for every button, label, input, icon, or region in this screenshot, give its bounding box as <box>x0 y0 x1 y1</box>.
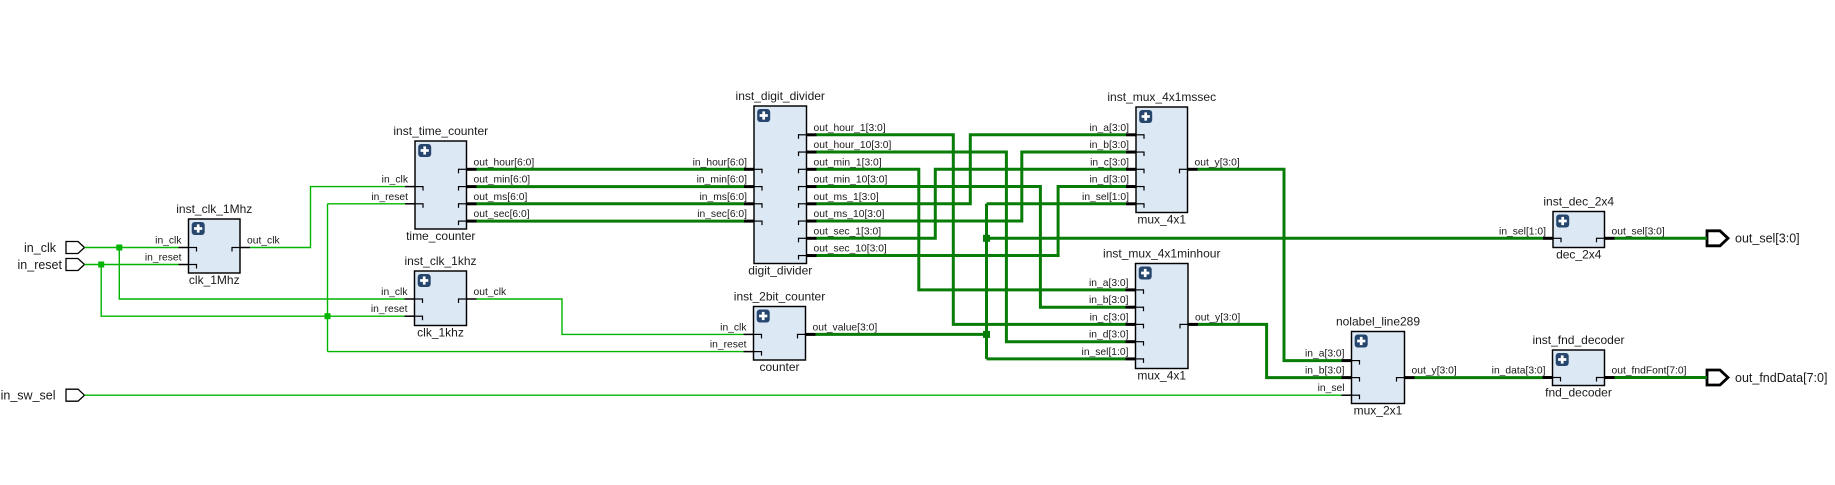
svg-text:in_ms[6:0]: in_ms[6:0] <box>699 192 747 203</box>
pin inst_mux_4x1minhour.out_y[3:0] (right) <box>1180 312 1240 328</box>
module block inst_fnd_decoder (fnd_decoder) <box>1553 350 1605 386</box>
type label dec_2x4 <box>1556 248 1602 262</box>
wire net in_reset: port to clk_1Mhz.in_reset <box>85 264 179 266</box>
type label fnd_decoder <box>1545 386 1612 400</box>
expand icon of inst_mux_4x1mssec <box>1139 110 1152 123</box>
svg-text:out_fndData[7:0]: out_fndData[7:0] <box>1735 371 1827 385</box>
svg-text:inst_mux_4x1mssec: inst_mux_4x1mssec <box>1107 90 1216 104</box>
svg-text:out_fndFont[7:0]: out_fndFont[7:0] <box>1612 366 1687 377</box>
wire net in_clk: port to clk_1Mhz.in_clk <box>85 247 179 249</box>
module block inst_2bit_counter (counter) <box>754 307 806 361</box>
instance label nolabel_line289 <box>1336 315 1420 329</box>
output port out_sel[3:0] <box>1707 231 1800 246</box>
pin inst_time_counter.in_reset (left) <box>371 192 423 208</box>
bus out_value branch to dec_2x4.in_sel <box>987 237 1544 240</box>
svg-text:mux_4x1: mux_4x1 <box>1137 213 1186 227</box>
svg-text:in_reset: in_reset <box>710 340 747 351</box>
pin inst_mux_4x1mssec.in_a[3:0] (left) <box>1089 123 1144 139</box>
pin inst_digit_divider.out_sec_10[3:0] (right) <box>799 244 887 260</box>
pin inst_time_counter.out_hour[6:0] (right) <box>459 157 535 173</box>
pin inst_digit_divider.out_hour_1[3:0] (right) <box>799 123 886 139</box>
pin inst_mux_4x1mssec.in_b[3:0] (left) <box>1089 140 1144 156</box>
type label mux_4x1 <box>1137 369 1186 383</box>
svg-text:out_clk: out_clk <box>247 236 280 247</box>
pin inst_2bit_counter.in_clk (left) <box>720 322 761 338</box>
expand icon of inst_time_counter <box>418 144 431 157</box>
svg-text:in_clk: in_clk <box>381 287 408 298</box>
svg-text:out_min[6:0]: out_min[6:0] <box>474 175 531 186</box>
svg-text:in_c[3:0]: in_c[3:0] <box>1090 157 1129 168</box>
module block inst_mux_4x1minhour (mux_4x1) <box>1136 264 1189 369</box>
module block inst_mux_4x1mssec (mux_4x1) <box>1136 107 1188 213</box>
expand icon of inst_dec_2x4 <box>1556 215 1569 228</box>
svg-text:out_hour[6:0]: out_hour[6:0] <box>474 157 535 168</box>
bus out_sec_10 to mux_4x1mssec.in_d <box>817 187 1127 256</box>
instance label inst_fnd_decoder <box>1532 333 1624 347</box>
svg-text:in_clk: in_clk <box>382 175 409 186</box>
pin inst_clk_1Mhz.in_clk (left) <box>155 236 196 252</box>
junction on out_value at dec branch <box>983 235 990 242</box>
type label clk_1khz <box>417 326 464 340</box>
instance label inst_clk_1Mhz <box>176 202 252 216</box>
svg-text:out_ms[6:0]: out_ms[6:0] <box>474 192 528 203</box>
svg-text:nolabel_line289: nolabel_line289 <box>1336 315 1420 329</box>
svg-text:clk_1Mhz: clk_1Mhz <box>189 273 240 287</box>
wire net in_clk branch: down to clk_1khz.in_clk <box>119 248 404 300</box>
input port in_clk <box>24 241 84 255</box>
expand icon of inst_clk_1Mhz <box>192 222 205 235</box>
type label counter <box>759 360 799 374</box>
svg-text:out_min_10[3:0]: out_min_10[3:0] <box>814 175 888 186</box>
pin inst_mux_4x1minhour.in_d[3:0] (left) <box>1089 330 1144 346</box>
svg-text:inst_time_counter: inst_time_counter <box>393 124 488 138</box>
svg-text:inst_dec_2x4: inst_dec_2x4 <box>1543 195 1614 209</box>
svg-text:out_sec_10[3:0]: out_sec_10[3:0] <box>814 244 887 255</box>
svg-text:inst_fnd_decoder: inst_fnd_decoder <box>1532 333 1624 347</box>
bus dec_2x4.out_sel to output port <box>1615 237 1708 240</box>
module block inst_time_counter (time_counter) <box>415 141 467 229</box>
wire net clk_1Mhz.out_clk to time_counter.in_clk <box>250 187 405 248</box>
pin inst_mux_4x1mssec.out_y[3:0] (right) <box>1180 157 1240 173</box>
instance label inst_dec_2x4 <box>1543 195 1614 209</box>
expand icon of inst_2bit_counter <box>757 310 770 323</box>
svg-text:in_b[3:0]: in_b[3:0] <box>1305 366 1345 377</box>
svg-text:inst_2bit_counter: inst_2bit_counter <box>734 290 825 304</box>
svg-text:in_sel[1:0]: in_sel[1:0] <box>1499 226 1546 237</box>
bus mux_2x1.out_y to fnd_decoder.in_data <box>1415 376 1543 379</box>
pin nolabel_line289.in_b[3:0] (left) <box>1305 366 1360 382</box>
input port in_sw_sel <box>1 389 85 403</box>
expand icon of nolabel_line289 <box>1355 335 1368 348</box>
svg-text:in_a[3:0]: in_a[3:0] <box>1089 278 1129 289</box>
type label mux_2x1 <box>1354 404 1403 418</box>
bus fnd_decoder.out_fndFont to output port <box>1615 376 1708 379</box>
pin inst_mux_4x1mssec.in_sel[1:0] (left) <box>1082 192 1144 208</box>
pin inst_digit_divider.out_hour_10[3:0] (right) <box>799 140 892 156</box>
pin inst_digit_divider.in_ms[6:0] (left) <box>699 192 762 208</box>
bus out_hour_1 to mux_4x1minhour.in_c <box>817 135 1126 325</box>
svg-text:inst_clk_1khz: inst_clk_1khz <box>404 254 476 268</box>
module block nolabel_line289 (mux_2x1) <box>1352 332 1405 404</box>
svg-text:in_b[3:0]: in_b[3:0] <box>1089 295 1129 306</box>
svg-text:out_value[3:0]: out_value[3:0] <box>813 322 878 333</box>
svg-text:out_clk: out_clk <box>474 287 507 298</box>
pin inst_digit_divider.in_sec[6:0] (left) <box>697 209 762 225</box>
svg-text:clk_1khz: clk_1khz <box>417 326 464 340</box>
svg-text:in_clk: in_clk <box>720 322 747 333</box>
module block inst_clk_1Mhz (clk_1Mhz) <box>189 219 241 273</box>
svg-text:out_hour_10[3:0]: out_hour_10[3:0] <box>814 140 892 151</box>
instance label inst_mux_4x1mssec <box>1107 90 1216 104</box>
type label time_counter <box>406 229 475 243</box>
pin inst_clk_1khz.in_clk (left) <box>381 287 422 303</box>
bus mux_4x1minhour.out_y to mux_2x1.in_b <box>1198 324 1342 377</box>
instance label inst_2bit_counter <box>734 290 825 304</box>
svg-text:in_d[3:0]: in_d[3:0] <box>1089 175 1129 186</box>
bus counter.out_value trunk with riser/drop <box>816 204 1127 359</box>
svg-text:out_ms_1[3:0]: out_ms_1[3:0] <box>814 192 879 203</box>
svg-text:out_sel[3:0]: out_sel[3:0] <box>1735 232 1800 246</box>
pin inst_digit_divider.out_ms_10[3:0] (right) <box>799 209 885 225</box>
svg-text:out_y[3:0]: out_y[3:0] <box>1412 366 1457 377</box>
svg-text:in_a[3:0]: in_a[3:0] <box>1305 349 1345 360</box>
pin inst_mux_4x1minhour.in_c[3:0] (left) <box>1090 312 1144 328</box>
bus time_counter.out_hour to digit_divider.in_hour <box>477 168 745 171</box>
pin nolabel_line289.out_y[3:0] (right) <box>1397 366 1457 382</box>
expand icon of inst_fnd_decoder <box>1556 353 1569 366</box>
pin inst_time_counter.in_clk (left) <box>382 175 423 191</box>
type label mux_4x1 <box>1137 213 1186 227</box>
pin inst_clk_1Mhz.out_clk (right) <box>232 236 280 252</box>
svg-text:in_sel: in_sel <box>1318 383 1345 394</box>
bus out_hour_10 to mux_4x1minhour.in_d <box>817 152 1126 342</box>
expand icon of inst_digit_divider <box>757 109 770 122</box>
input port in_reset <box>18 258 85 272</box>
svg-text:in_data[3:0]: in_data[3:0] <box>1492 366 1546 377</box>
output port out_fndData[7:0] <box>1707 370 1827 385</box>
pin inst_mux_4x1minhour.in_sel[1:0] (left) <box>1082 347 1144 363</box>
instance label inst_clk_1khz <box>404 254 476 268</box>
svg-text:in_sel[1:0]: in_sel[1:0] <box>1082 192 1129 203</box>
svg-text:out_ms_10[3:0]: out_ms_10[3:0] <box>814 209 885 220</box>
pin inst_mux_4x1minhour.in_b[3:0] (left) <box>1089 295 1144 311</box>
svg-text:in_d[3:0]: in_d[3:0] <box>1089 330 1129 341</box>
wire net in_sw_sel: port to mux_2x1.in_sel <box>85 394 1342 396</box>
svg-text:inst_mux_4x1minhour: inst_mux_4x1minhour <box>1103 247 1220 261</box>
wire net in_reset branch: riser to time_counter.in_reset and drop to counter.in_reset <box>328 204 744 352</box>
svg-text:mux_2x1: mux_2x1 <box>1354 404 1403 418</box>
svg-text:out_min_1[3:0]: out_min_1[3:0] <box>814 157 882 168</box>
pin inst_digit_divider.in_min[6:0] (left) <box>697 175 762 191</box>
pin inst_fnd_decoder.in_data[3:0] (left) <box>1492 366 1561 382</box>
pin inst_digit_divider.out_min_10[3:0] (right) <box>799 175 888 191</box>
svg-text:in_reset: in_reset <box>371 304 408 315</box>
bus out_ms_10 to mux_4x1mssec.in_b <box>817 152 1127 221</box>
svg-text:dec_2x4: dec_2x4 <box>1556 248 1602 262</box>
wire net in_reset branch: down to clk_1khz.in_reset <box>101 265 404 317</box>
junction on in_reset net at clk_1khz branch <box>325 313 331 319</box>
bus out_min_10 to mux_4x1minhour.in_b <box>817 187 1126 308</box>
svg-text:inst_clk_1Mhz: inst_clk_1Mhz <box>176 202 252 216</box>
type label clk_1Mhz <box>189 273 240 287</box>
pin inst_mux_4x1mssec.in_d[3:0] (left) <box>1089 175 1144 191</box>
svg-text:out_sel[3:0]: out_sel[3:0] <box>1612 226 1665 237</box>
instance label inst_mux_4x1minhour <box>1103 247 1220 261</box>
module block inst_digit_divider (digit_divider) <box>754 106 807 264</box>
instance label inst_digit_divider <box>736 89 825 103</box>
bus out_ms_1 to mux_4x1mssec.in_a <box>817 135 1127 204</box>
svg-text:out_y[3:0]: out_y[3:0] <box>1195 157 1240 168</box>
junction on in_reset net at port branch <box>98 262 104 268</box>
svg-text:out_hour_1[3:0]: out_hour_1[3:0] <box>814 123 886 134</box>
pin nolabel_line289.in_a[3:0] (left) <box>1305 349 1360 365</box>
svg-text:inst_digit_divider: inst_digit_divider <box>736 89 825 103</box>
junction on in_clk net <box>116 245 122 251</box>
pin inst_time_counter.out_min[6:0] (right) <box>459 175 531 191</box>
svg-text:in_b[3:0]: in_b[3:0] <box>1089 140 1129 151</box>
svg-text:out_y[3:0]: out_y[3:0] <box>1195 312 1240 323</box>
type label digit_divider <box>748 264 812 278</box>
svg-text:in_sel[1:0]: in_sel[1:0] <box>1082 347 1129 358</box>
pin inst_clk_1Mhz.in_reset (left) <box>145 253 197 269</box>
pin nolabel_line289.in_sel (left) <box>1318 383 1360 399</box>
pin inst_mux_4x1minhour.in_a[3:0] (left) <box>1089 278 1144 294</box>
svg-text:in_sw_sel: in_sw_sel <box>1 389 56 403</box>
svg-text:digit_divider: digit_divider <box>748 264 812 278</box>
pin inst_digit_divider.in_hour[6:0] (left) <box>693 157 762 173</box>
svg-text:in_reset: in_reset <box>18 258 63 272</box>
module block inst_dec_2x4 (dec_2x4) <box>1553 212 1605 248</box>
pin inst_fnd_decoder.out_fndFont[7:0] (right) <box>1597 366 1687 382</box>
svg-text:in_clk: in_clk <box>155 236 182 247</box>
pin inst_2bit_counter.in_reset (left) <box>710 340 762 356</box>
svg-text:out_sec[6:0]: out_sec[6:0] <box>474 209 530 220</box>
pin inst_digit_divider.out_min_1[3:0] (right) <box>799 157 882 173</box>
bus out_min_1 to mux_4x1minhour.in_a <box>817 169 1126 290</box>
pin inst_dec_2x4.out_sel[3:0] (right) <box>1597 226 1665 242</box>
junction on out_value at counter trunk <box>983 331 990 338</box>
svg-text:in_hour[6:0]: in_hour[6:0] <box>693 157 748 168</box>
wire net clk_1khz.out_clk to counter.in_clk <box>477 299 744 334</box>
svg-text:counter: counter <box>759 360 799 374</box>
expand icon of inst_clk_1khz <box>418 274 431 287</box>
svg-text:mux_4x1: mux_4x1 <box>1137 369 1186 383</box>
bus time_counter.out_sec to digit_divider.in_sec <box>477 220 745 223</box>
svg-text:in_c[3:0]: in_c[3:0] <box>1090 312 1129 323</box>
svg-text:in_sec[6:0]: in_sec[6:0] <box>697 209 747 220</box>
module block inst_clk_1khz (clk_1khz) <box>415 271 467 326</box>
pin inst_time_counter.out_ms[6:0] (right) <box>459 192 528 208</box>
svg-text:time_counter: time_counter <box>406 229 475 243</box>
pin inst_clk_1khz.in_reset (left) <box>371 304 423 320</box>
pin inst_dec_2x4.in_sel[1:0] (left) <box>1499 226 1561 242</box>
bus mux_4x1mssec.out_y to mux_2x1.in_a <box>1198 169 1342 360</box>
pin inst_2bit_counter.out_value[3:0] (right) <box>798 322 878 338</box>
svg-text:in_reset: in_reset <box>145 253 182 264</box>
pin inst_digit_divider.out_sec_1[3:0] (right) <box>799 226 882 242</box>
svg-text:in_a[3:0]: in_a[3:0] <box>1089 123 1129 134</box>
svg-text:in_min[6:0]: in_min[6:0] <box>697 175 748 186</box>
pin inst_mux_4x1mssec.in_c[3:0] (left) <box>1090 157 1144 173</box>
pin inst_digit_divider.out_ms_1[3:0] (right) <box>799 192 879 208</box>
svg-text:in_reset: in_reset <box>371 192 408 203</box>
pin inst_clk_1khz.out_clk (right) <box>459 287 507 303</box>
bus time_counter.out_min to digit_divider.in_min <box>477 185 745 188</box>
svg-text:in_clk: in_clk <box>24 241 57 255</box>
expand icon of inst_mux_4x1minhour <box>1139 267 1152 280</box>
pin inst_time_counter.out_sec[6:0] (right) <box>459 209 530 225</box>
svg-text:fnd_decoder: fnd_decoder <box>1545 386 1612 400</box>
svg-text:out_sec_1[3:0]: out_sec_1[3:0] <box>814 226 882 237</box>
bus time_counter.out_ms to digit_divider.in_ms <box>477 202 745 205</box>
bus out_sec_1 to mux_4x1mssec.in_c <box>817 169 1127 238</box>
instance label inst_time_counter <box>393 124 488 138</box>
